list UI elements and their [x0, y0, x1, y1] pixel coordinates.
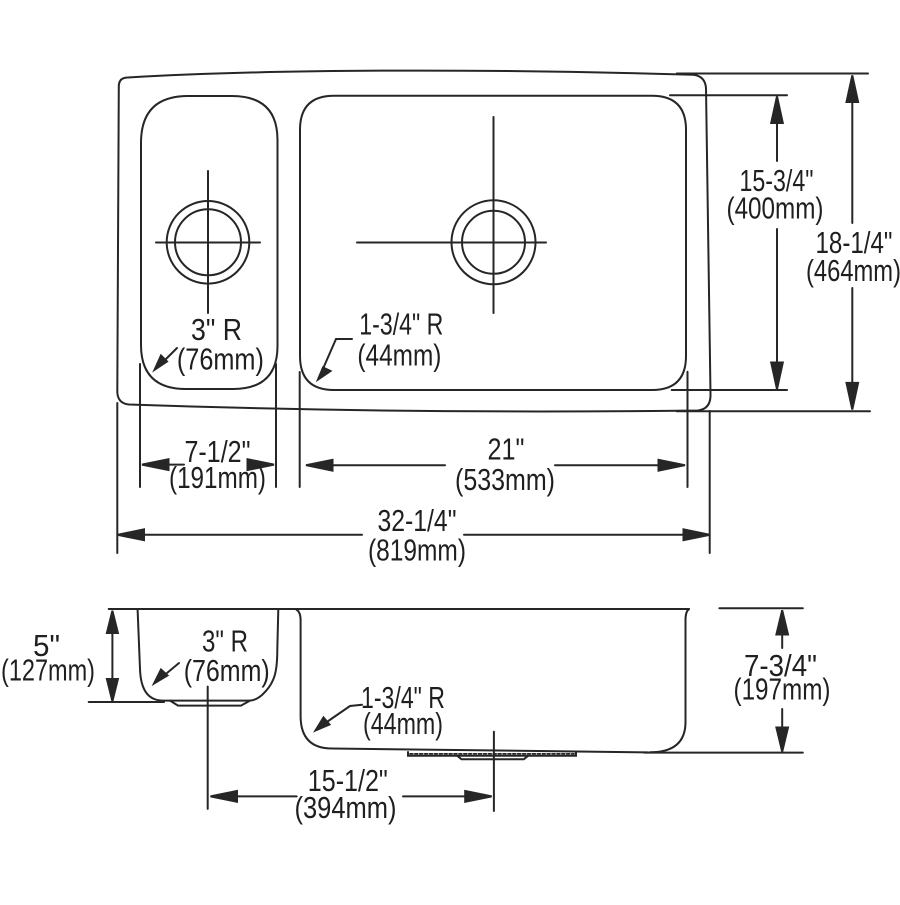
extension line rim bottom right (18-1/4) — [677, 410, 870, 412]
section: countertop/rim top line — [109, 608, 689, 610]
svg-text:(191mm): (191mm) — [169, 460, 266, 495]
extension line rim top right (18-1/4) — [677, 73, 868, 75]
sink rim outline (top view) — [117, 71, 710, 412]
dimension 7-1/2 line — [144, 464, 272, 466]
small drain crosshair vertical — [207, 171, 209, 313]
extension line rim left (below rim) — [116, 403, 118, 553]
section: bottom extension line (7-3/4 ref) — [644, 752, 803, 754]
section: small drain centerline — [207, 687, 209, 809]
large bowl (top view) — [300, 96, 686, 390]
svg-text:(464mm): (464mm) — [806, 253, 900, 288]
section: drain foot (large bowl) — [457, 756, 528, 760]
section: top extension line right (7-3/4 ref) — [719, 607, 802, 609]
extension line bowl top right (15-3/4) — [670, 94, 787, 96]
small bowl drain outer circle — [167, 201, 250, 284]
section: drain strainer strip — [408, 752, 576, 756]
section: small bowl profile — [138, 610, 279, 701]
svg-text:(76mm): (76mm) — [184, 653, 270, 688]
large drain crosshair vertical — [493, 117, 495, 313]
dimension 21 line — [308, 464, 683, 466]
svg-text:(76mm): (76mm) — [177, 342, 264, 377]
extension line rim right — [709, 411, 711, 553]
small bowl (top view) — [141, 96, 278, 389]
section: large bowl right wall — [650, 609, 689, 752]
dimension 15-1/2 line — [213, 795, 490, 797]
extension line large bowl left — [299, 372, 301, 487]
dimension 15-3/4 vertical — [776, 102, 778, 384]
extension line large bowl right — [687, 372, 689, 487]
svg-text:(400mm): (400mm) — [727, 191, 824, 226]
svg-text:(197mm): (197mm) — [734, 672, 831, 707]
svg-text:1-3/4" R: 1-3/4" R — [359, 307, 443, 342]
large bowl drain outer circle — [452, 200, 536, 284]
extension line small bowl left — [139, 364, 141, 487]
svg-text:(394mm): (394mm) — [295, 790, 397, 825]
svg-text:(44mm): (44mm) — [363, 706, 443, 741]
svg-text:(533mm): (533mm) — [455, 462, 555, 497]
leader arrow 1-3/4R (top view) — [322, 339, 352, 371]
large drain crosshair horizontal — [357, 242, 546, 244]
extension line bowl bottom right (15-3/4) — [672, 389, 787, 391]
dimension 7-3/4 vertical — [781, 616, 783, 746]
leader arrow 3R (top view) — [160, 348, 177, 365]
leader arrow 1-3/4R (section) — [321, 705, 362, 726]
section: large drain centerline — [493, 732, 495, 811]
extension line small bowl right — [275, 364, 277, 487]
svg-text:(819mm): (819mm) — [368, 533, 466, 568]
svg-text:(127mm): (127mm) — [1, 653, 95, 688]
section: large bowl left wall — [296, 610, 648, 753]
large bowl drain inner circle — [462, 211, 525, 274]
dimension 5in vertical double arrow — [111, 618, 113, 694]
dimension 18-1/4 vertical — [851, 81, 853, 404]
section: 5in bottom reference line — [89, 701, 164, 703]
svg-text:(44mm): (44mm) — [357, 338, 441, 373]
small drain crosshair horizontal — [156, 242, 260, 244]
small bowl drain inner circle — [175, 209, 241, 275]
leader arrow 3R (section) — [161, 663, 179, 678]
section: small bowl drain foot — [170, 701, 250, 706]
dimension 32-1/4 line — [120, 534, 709, 536]
